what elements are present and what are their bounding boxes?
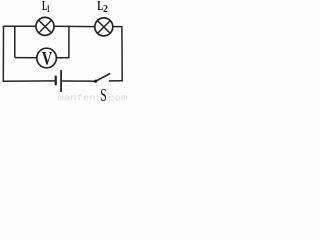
wire left vertical: [2, 27, 4, 82]
battery: [56, 71, 61, 91]
svg-text:manfen5.com: manfen5.com: [58, 93, 128, 102]
wire voltmeter left lead: [16, 57, 37, 59]
wire voltmeter branch left vertical: [15, 27, 16, 58]
voltmeter V1: [37, 48, 57, 69]
wire top-left segment: [4, 25, 36, 28]
wire switch to battery: [63, 80, 89, 82]
label L2: [97, 0, 108, 15]
wire right vertical: [121, 27, 123, 81]
svg-text:S: S: [100, 85, 106, 102]
svg-text:V: V: [42, 49, 53, 69]
lamp L1: [36, 17, 54, 35]
wire voltmeter branch right vertical: [68, 27, 70, 58]
label L1: [42, 0, 50, 15]
svg-text:2: 2: [103, 3, 108, 15]
wire between L1 and L2: [54, 25, 94, 27]
switch S: [89, 74, 111, 83]
wire top-right segment: [113, 26, 122, 28]
wire bottom-left segment: [3, 80, 54, 82]
watermark manfen5.com: [58, 93, 128, 103]
wire bottom-right segment: [111, 80, 122, 82]
label S: [100, 85, 106, 105]
svg-text:1: 1: [47, 4, 50, 15]
lamp L2: [95, 18, 113, 36]
wire voltmeter right lead: [56, 57, 69, 59]
